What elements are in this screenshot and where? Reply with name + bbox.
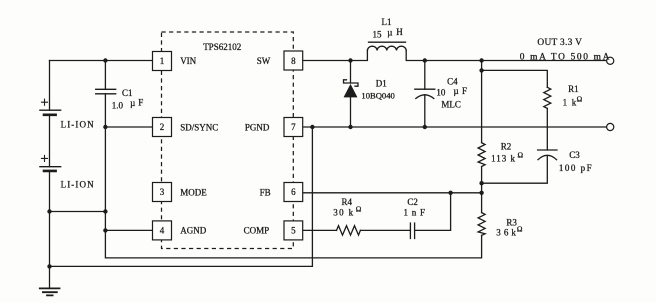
svg-text:4: 4 — [160, 225, 165, 235]
svg-text:COMP: COMP — [244, 226, 270, 236]
svg-text:0 mA TO 500 mA: 0 mA TO 500 mA — [520, 52, 611, 62]
svg-text:R2: R2 — [501, 141, 512, 151]
svg-text:LI-ION: LI-ION — [61, 180, 95, 190]
svg-text:AGND: AGND — [180, 226, 206, 236]
svg-text:R1: R1 — [568, 84, 579, 94]
svg-text:8: 8 — [291, 56, 296, 66]
svg-text:15: 15 — [373, 29, 383, 39]
svg-text:113 k: 113 k — [491, 154, 516, 164]
svg-text:µ: µ — [387, 27, 392, 37]
svg-text:H: H — [396, 27, 403, 37]
svg-text:C1: C1 — [122, 88, 133, 98]
svg-text:7: 7 — [291, 122, 296, 132]
svg-text:SW: SW — [257, 56, 271, 66]
svg-text:F: F — [138, 97, 143, 107]
svg-text:L1: L1 — [382, 17, 392, 27]
svg-text:D1: D1 — [376, 79, 387, 89]
svg-text:R3: R3 — [506, 217, 517, 227]
svg-text:MODE: MODE — [180, 187, 207, 197]
svg-text:10BQ040: 10BQ040 — [361, 90, 394, 100]
svg-text:F: F — [462, 86, 467, 96]
svg-text:1.0: 1.0 — [112, 100, 124, 110]
svg-text:6: 6 — [291, 187, 296, 197]
svg-text:R4: R4 — [342, 197, 353, 207]
svg-text:2: 2 — [160, 122, 165, 132]
svg-text:C3: C3 — [569, 150, 580, 160]
svg-text:µ: µ — [130, 98, 135, 108]
svg-text:LI-ION: LI-ION — [61, 120, 95, 130]
svg-text:Ω: Ω — [518, 151, 524, 160]
svg-text:5: 5 — [291, 225, 296, 235]
svg-text:3: 3 — [160, 187, 165, 197]
svg-text:1 k: 1 k — [563, 97, 578, 107]
svg-text:3 6 k: 3 6 k — [496, 227, 516, 237]
svg-text:FB: FB — [260, 187, 271, 197]
svg-text:Ω: Ω — [517, 225, 523, 234]
svg-text:VIN: VIN — [180, 56, 196, 66]
svg-text:100 pF: 100 pF — [559, 163, 593, 173]
svg-text:1: 1 — [160, 56, 165, 66]
svg-text:MLC: MLC — [441, 100, 461, 110]
svg-text:µ: µ — [454, 86, 459, 96]
svg-text:C2: C2 — [407, 197, 418, 207]
svg-text:SD/SYNC: SD/SYNC — [180, 123, 218, 133]
svg-text:TPS62102: TPS62102 — [203, 42, 241, 52]
svg-text:1 n F: 1 n F — [404, 207, 426, 217]
svg-text:Ω: Ω — [356, 205, 362, 214]
svg-text:PGND: PGND — [245, 123, 270, 133]
svg-text:10: 10 — [436, 87, 446, 97]
svg-text:Ω: Ω — [577, 95, 583, 104]
svg-text:C4: C4 — [447, 77, 458, 87]
svg-text:OUT 3.3 V: OUT 3.3 V — [537, 38, 582, 48]
svg-text:30 k: 30 k — [333, 207, 354, 217]
